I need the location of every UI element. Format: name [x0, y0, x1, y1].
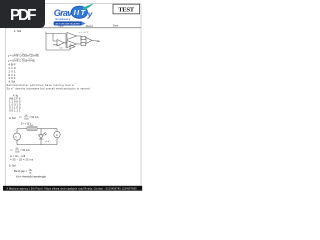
svg-text:So e¯ density increases but ov: So e¯ density increases but overall semi… [7, 86, 91, 90]
page frame right border [140, 4, 142, 186]
wire Q9 bottom rail [17, 144, 57, 146]
svg-text:5. Sol: 5. Sol [9, 164, 16, 168]
logo banner slogan [55, 23, 81, 26]
svg-text:= 5 V: = 5 V [45, 141, 50, 143]
equation tc [10, 154, 25, 158]
equation line 2 [8, 58, 35, 62]
svg-text:1 kΩ: 1 kΩ [29, 125, 34, 127]
wire meter top [56, 129, 58, 132]
PDF badge [0, 0, 45, 28]
page frame top border [5, 3, 141, 5]
PDF badge label [10, 7, 37, 24]
svg-text:AN IIT JEE | NEET ACADEMY: AN IIT JEE | NEET ACADEMY [55, 23, 81, 26]
page frame left border [4, 4, 6, 186]
svg-text:1 kΩ: 1 kΩ [56, 45, 61, 47]
LED emission arrows [44, 132, 47, 135]
answer 4b label [13, 95, 18, 98]
header label Marks [86, 24, 94, 28]
label E supply [21, 124, 32, 126]
equation i fraction [19, 115, 39, 120]
equation tc result [10, 158, 34, 162]
svg-text:x = +17 V: x = +17 V [79, 32, 89, 34]
op-amp U4 [86, 38, 92, 44]
svg-text:academy: academy [55, 17, 70, 21]
label R1 value [29, 125, 34, 127]
truth table Q1 [8, 63, 16, 81]
summing box B [81, 43, 86, 46]
logo swoosh [83, 3, 94, 10]
svg-text:A: A [56, 133, 58, 137]
answer 9 label [9, 116, 16, 120]
svg-text:PDF: PDF [10, 7, 37, 24]
svg-text:tc = ton − toff: tc = ton − toff [10, 154, 25, 158]
source V1 [13, 133, 20, 140]
svg-text:9. Sol: 9. Sol [9, 116, 16, 120]
svg-text:y: y [87, 9, 93, 19]
summing box A [81, 37, 86, 40]
header label Date [113, 24, 119, 28]
svg-text:TEST: TEST [118, 6, 135, 13]
op-amp U1 [57, 40, 64, 47]
header rule [5, 27, 141, 29]
source V1 polarity [15, 136, 17, 139]
wire U1 output [64, 34, 67, 49]
buffer U5 [70, 45, 75, 49]
svg-text:0 0 1 1 1: 0 0 1 1 1 [9, 109, 21, 113]
LED D1 [39, 135, 44, 139]
wire meter bottom [56, 138, 58, 145]
wire LED branch bottom [40, 139, 42, 145]
svg-text:1. Sol: 1. Sol [14, 29, 22, 33]
svg-text:1 kΩ: 1 kΩ [59, 48, 64, 50]
page background [0, 0, 149, 198]
label U1 gain [59, 48, 64, 50]
svg-text:= 50 mA: = 50 mA [29, 116, 39, 119]
meter M1 [54, 131, 60, 137]
logo y letter [87, 9, 93, 19]
header label Topic [58, 25, 64, 28]
wire Q1 bottom rail [46, 48, 70, 50]
wire U2 U3 outputs [77, 36, 82, 44]
op-amp U3 [67, 41, 77, 48]
svg-text:= 50 mA: = 50 mA [20, 149, 30, 152]
op-amp U2 [67, 33, 77, 40]
footer band [3, 186, 142, 191]
answer 4 text line 1 [7, 83, 77, 87]
svg-text:Marks: Marks [86, 24, 94, 28]
svg-text:= 50 − 25 = 25 ms: = 50 − 25 = 25 ms [10, 158, 34, 162]
svg-text:A Madurai agency | 5th Floor |: A Madurai agency | 5th Floor | Vidya vih… [7, 187, 138, 190]
label bottom rail [56, 45, 61, 47]
truth table Q4 [9, 96, 21, 112]
answer 4 text line 2 [7, 86, 91, 90]
answer 5 label [9, 164, 16, 168]
wire Q1 top rail [46, 33, 66, 35]
footer text [7, 187, 138, 190]
question 1 label [14, 29, 22, 33]
label +17V [79, 32, 89, 34]
svg-text:Date:: Date: [113, 24, 119, 28]
answer 4 label [9, 79, 16, 83]
wire Q9 top rail [17, 128, 57, 130]
logo wordmark Grav [54, 8, 73, 18]
svg-text:λth = threshold wavelength: λth = threshold wavelength [16, 175, 47, 179]
logo IIT oval [71, 6, 87, 18]
wire U1 feed [53, 34, 57, 45]
svg-text:4. Sol: 4. Sol [9, 79, 16, 83]
equation i result fraction [10, 148, 30, 153]
band gap equation [14, 169, 33, 174]
wire Q1 output [92, 40, 99, 43]
wire LED branch top [40, 129, 42, 135]
output arrowhead [98, 40, 100, 42]
TEST box [113, 4, 140, 14]
svg-text:Band gap =: Band gap = [14, 170, 28, 173]
equation line 1 [8, 54, 39, 58]
logo academy text [55, 17, 70, 21]
logo banner [54, 21, 86, 25]
threshold note [16, 175, 47, 179]
meter M1 letter [56, 133, 58, 137]
wire source top [16, 129, 18, 133]
wire source bottom [16, 140, 18, 144]
resistor R1 [27, 127, 37, 130]
label LED value [45, 141, 50, 143]
wire Q1 input bus [45, 32, 47, 51]
